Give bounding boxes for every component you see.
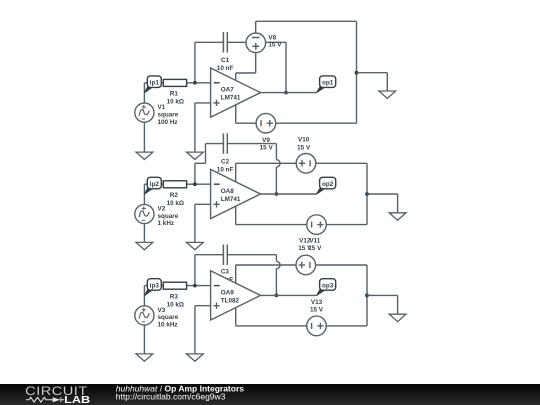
svg-text:V13: V13 [311,299,323,306]
svg-text:square: square [158,314,179,321]
svg-text:10 nF: 10 nF [217,166,234,173]
svg-text:op3: op3 [322,282,334,289]
svg-text:ip3: ip3 [150,282,160,289]
svg-text:10 kΩ: 10 kΩ [167,200,184,207]
svg-text:C1: C1 [221,57,230,64]
svg-text:LM741: LM741 [221,95,241,102]
svg-text:15 V: 15 V [260,145,274,152]
svg-text:15 V: 15 V [308,245,322,252]
svg-text:V1: V1 [158,104,166,111]
svg-text:100 Hz: 100 Hz [158,119,178,126]
svg-text:OA9: OA9 [221,289,235,296]
svg-text:ip2: ip2 [150,181,160,188]
svg-text:1 kHz: 1 kHz [158,220,175,227]
svg-text:square: square [158,111,179,118]
svg-text:15 V: 15 V [297,144,311,151]
svg-text:op1: op1 [322,80,334,87]
svg-text:15 V: 15 V [310,307,324,314]
svg-text:C2: C2 [221,158,230,165]
svg-text:15 V: 15 V [268,41,282,48]
svg-text:LAB: LAB [64,395,90,405]
svg-text:C3: C3 [221,269,230,276]
svg-text:ip1: ip1 [150,80,160,87]
svg-text:http://circuitlab.com/c6eg9w3: http://circuitlab.com/c6eg9w3 [116,392,226,402]
svg-text:10 nF: 10 nF [217,65,234,72]
svg-text:V9: V9 [262,137,270,144]
svg-text:LM741: LM741 [221,196,241,203]
svg-text:op2: op2 [322,181,334,188]
svg-text:R3: R3 [170,294,179,301]
svg-text:10 kHz: 10 kHz [158,322,178,329]
svg-text:R1: R1 [170,91,179,98]
svg-text:V11: V11 [309,237,320,244]
svg-text:V3: V3 [158,307,166,314]
svg-text:OA7: OA7 [221,87,235,94]
svg-text:square: square [158,213,179,220]
svg-text:TL082: TL082 [221,297,240,304]
svg-text:V2: V2 [158,205,166,212]
svg-text:V10: V10 [298,136,310,143]
svg-text:10 kΩ: 10 kΩ [167,301,184,308]
svg-text:OA8: OA8 [221,188,235,195]
svg-text:10 kΩ: 10 kΩ [167,99,184,106]
svg-text:R2: R2 [170,192,179,199]
